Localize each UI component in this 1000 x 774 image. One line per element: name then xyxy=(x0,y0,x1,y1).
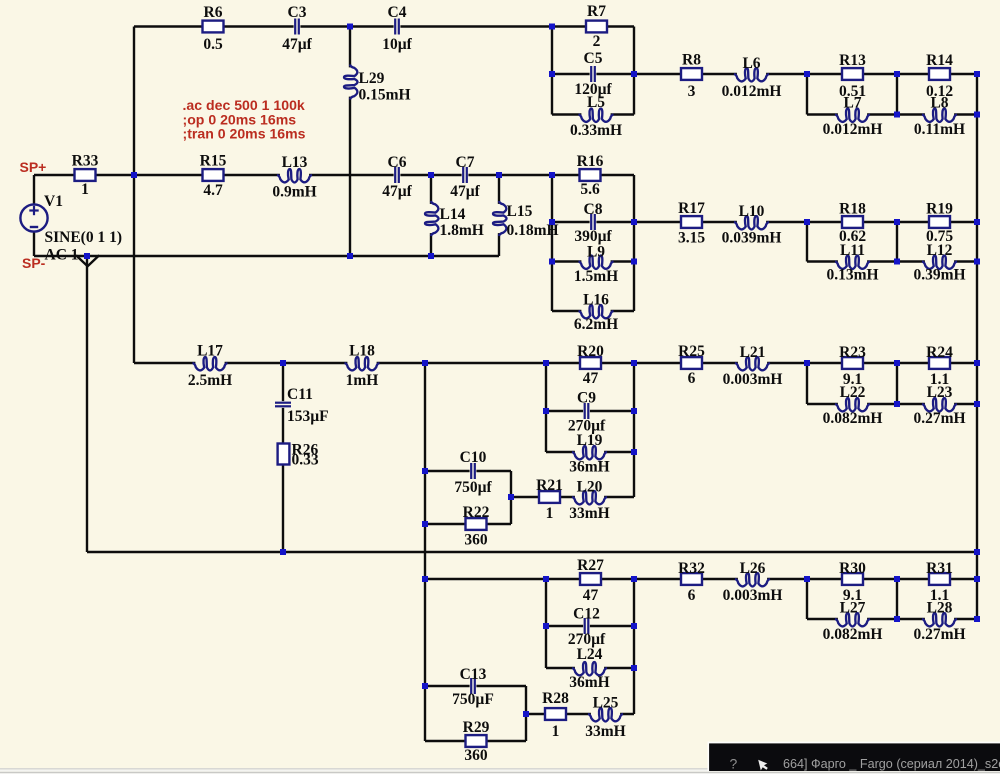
svg-text:AC 1: AC 1 xyxy=(45,247,79,264)
node junction (431,256) xyxy=(428,253,434,259)
wire: R7 block left rail xyxy=(551,27,553,115)
node junction (634,411) xyxy=(631,408,637,414)
wire: zobel3 mid rail xyxy=(896,363,898,404)
inductor L9 (1.5mH) xyxy=(574,244,618,286)
bar cursor icon xyxy=(758,760,768,771)
svg-text:0.33: 0.33 xyxy=(292,452,319,469)
inductor L28 (0.27mH) xyxy=(913,600,965,644)
svg-text:L14: L14 xyxy=(440,206,466,223)
svg-text:1.5mH: 1.5mH xyxy=(574,268,618,285)
svg-text:750µf: 750µf xyxy=(454,479,492,496)
voltage source V1 SINE(0 1 1) AC 1 xyxy=(20,193,122,264)
wire: zobel4 left rail xyxy=(806,579,808,619)
svg-text:2.5mH: 2.5mH xyxy=(188,372,232,389)
inductor L19 (36mH) xyxy=(569,432,609,476)
svg-text:L9: L9 xyxy=(587,244,605,261)
resistor R20 (47) xyxy=(577,343,604,387)
svg-text:360: 360 xyxy=(464,532,488,549)
wire: zobel3 left rail xyxy=(806,363,808,404)
node junction (511,497) xyxy=(508,494,514,500)
node junction (546,363) xyxy=(543,360,549,366)
wire: C5 branch xyxy=(552,73,634,75)
svg-text:0.13mH: 0.13mH xyxy=(826,267,878,284)
svg-text:47: 47 xyxy=(583,370,599,387)
wire: C8 branch xyxy=(552,221,634,223)
svg-text:R13: R13 xyxy=(839,52,866,69)
wire: mid series xyxy=(634,221,807,223)
inductor L18 (1mH) xyxy=(345,343,380,390)
wire: source return xyxy=(34,255,499,257)
node junction (526,714) xyxy=(523,711,529,717)
svg-text:L28: L28 xyxy=(927,600,953,617)
resistor R26 (0.33) vertical xyxy=(278,442,319,469)
svg-text:;tran 0 20ms 16ms: ;tran 0 20ms 16ms xyxy=(183,125,306,141)
node junction (807,74) xyxy=(804,71,810,77)
svg-text:0.39mH: 0.39mH xyxy=(913,267,965,284)
capacitor C10 (750µf) xyxy=(454,449,492,496)
resistor R23 (9.1) xyxy=(839,344,866,388)
resistor R32 (6) xyxy=(678,560,705,604)
node junction (897,363) xyxy=(894,360,900,366)
capacitor C5 (120µf) xyxy=(574,50,612,98)
inductor L10 (0.039mH) xyxy=(722,203,782,247)
inductor L8 (0.11mH) xyxy=(914,95,965,139)
svg-text:R18: R18 xyxy=(839,201,866,218)
svg-text:R19: R19 xyxy=(926,201,953,218)
wire: L24 branch xyxy=(546,667,634,669)
node junction (807,363) xyxy=(804,360,810,366)
wire: low zobel top xyxy=(807,362,977,364)
node junction (552,74) xyxy=(549,71,555,77)
inductor L26 (0.003mH) xyxy=(723,560,783,604)
svg-text:R29: R29 xyxy=(463,719,490,736)
wire: common return rail xyxy=(87,551,977,553)
node junction (552,222) xyxy=(549,219,555,225)
svg-text:3: 3 xyxy=(688,83,696,100)
svg-text:L24: L24 xyxy=(577,646,603,663)
node junction (283,552) xyxy=(280,549,286,555)
node junction (634,261.5) xyxy=(631,259,637,265)
svg-text:L29: L29 xyxy=(359,70,385,87)
svg-text:10µf: 10µf xyxy=(382,36,412,53)
node junction (552,26.5) xyxy=(549,24,555,30)
node junction (634,626) xyxy=(631,623,637,629)
svg-text:R25: R25 xyxy=(678,343,705,360)
svg-text:1mH: 1mH xyxy=(346,372,379,389)
svg-text:R20: R20 xyxy=(577,343,604,360)
resistor R29 (360) xyxy=(463,719,490,764)
resistor R6 (0.5) xyxy=(203,4,224,53)
svg-text:R8: R8 xyxy=(682,52,701,69)
wire: zobel4 mid rail xyxy=(896,579,898,619)
svg-text:664] Фарго _ Fargo (сериал 201: 664] Фарго _ Fargo (сериал 2014)_s2e1 xyxy=(783,757,1000,771)
node junction (552,261.5) xyxy=(549,259,555,265)
svg-text:R21: R21 xyxy=(536,477,563,494)
node junction (425,363) xyxy=(422,360,428,366)
node junction (546,626) xyxy=(543,623,549,629)
node junction (977,579) xyxy=(974,576,980,582)
node junction (634,363) xyxy=(631,360,637,366)
svg-text:SP+: SP+ xyxy=(20,159,47,175)
wire: R20 block left rail xyxy=(545,363,547,452)
svg-text:C9: C9 xyxy=(577,390,596,407)
capacitor C12 (270µf) xyxy=(568,606,606,649)
wire: R16 block right rail xyxy=(633,175,635,311)
wire: L29 shunt xyxy=(349,27,351,257)
svg-text:R23: R23 xyxy=(839,344,866,361)
resistor R30 (9.1) xyxy=(839,560,866,604)
capacitor C3 (47µf) xyxy=(282,4,312,53)
svg-text:L23: L23 xyxy=(927,384,953,401)
wire: C12 branch xyxy=(546,625,634,627)
wire: L15 shunt xyxy=(498,175,500,256)
svg-text:L15: L15 xyxy=(507,203,533,220)
wire: R7 branch xyxy=(552,25,634,27)
node junction (897,114.5) xyxy=(894,112,900,118)
node junction (977,74) xyxy=(974,71,980,77)
svg-text:L6: L6 xyxy=(742,55,760,72)
svg-text:R16: R16 xyxy=(577,153,604,170)
node junction (977,261.5) xyxy=(974,259,980,265)
svg-text:SP-: SP- xyxy=(22,255,46,271)
svg-text:C8: C8 xyxy=(584,201,603,218)
capacitor C4 (10µf) xyxy=(382,4,412,53)
node junction (552,175) xyxy=(549,172,555,178)
svg-text:0.012mH: 0.012mH xyxy=(823,121,883,138)
wire: zobel2 left rail xyxy=(806,222,808,262)
wire: mid band rail xyxy=(34,174,552,176)
wire: C11-R26 shunt xyxy=(282,363,284,552)
svg-text:0.9mH: 0.9mH xyxy=(272,184,316,201)
node junction (546,411) xyxy=(543,408,549,414)
wire: L5 branch xyxy=(552,113,634,115)
wire: C13/R29 right rail xyxy=(525,686,527,741)
node junction (634,668) xyxy=(631,665,637,671)
node junction (425,579) xyxy=(422,576,428,582)
node junction (977,404) xyxy=(974,401,980,407)
svg-text:R24: R24 xyxy=(926,344,953,361)
wire: SP- return drop xyxy=(86,256,88,552)
svg-text:0.33mH: 0.33mH xyxy=(570,122,622,139)
node junction (350,26.5) xyxy=(347,24,353,30)
svg-text:L27: L27 xyxy=(840,600,866,617)
wire: low band rail xyxy=(134,362,807,364)
svg-text:C5: C5 xyxy=(584,50,603,67)
svg-text:L10: L10 xyxy=(739,203,765,220)
svg-text:47µf: 47µf xyxy=(282,36,312,53)
resistor R27 (47) xyxy=(577,557,604,604)
svg-text:390µf: 390µf xyxy=(574,228,612,245)
wire: zobel1 mid rail xyxy=(896,74,898,115)
resistor R13 (0.51) xyxy=(839,52,866,100)
svg-text:2: 2 xyxy=(593,33,601,50)
capacitor C7 (47µf) xyxy=(450,154,480,200)
capacitor C8 (390µf) xyxy=(574,201,612,245)
resistor R8 (3) xyxy=(681,52,702,101)
svg-text:360: 360 xyxy=(464,747,488,764)
svg-text:L7: L7 xyxy=(843,95,861,112)
svg-text:L25: L25 xyxy=(593,695,619,712)
wire: R16 branch xyxy=(552,174,634,176)
inductor L17 (2.5mH) xyxy=(188,343,232,390)
node junction (897,222) xyxy=(894,219,900,225)
resistor R31 (1.1) xyxy=(926,560,953,604)
wire: low zobel bottom xyxy=(807,403,977,405)
svg-text:L18: L18 xyxy=(349,343,375,360)
svg-text:0.5: 0.5 xyxy=(203,36,223,53)
wire: mid zobel bottom xyxy=(807,260,977,262)
svg-text:47: 47 xyxy=(583,587,599,604)
wire: zobel2 mid rail xyxy=(896,222,898,262)
inductor L29 (0.15mH) vertical xyxy=(344,65,411,104)
svg-text:6: 6 xyxy=(688,370,696,387)
inductor L13 (0.9mH) xyxy=(272,154,316,201)
resistor R24 (1.1) xyxy=(926,344,953,388)
svg-text:33mH: 33mH xyxy=(585,723,625,740)
node junction (634,222) xyxy=(631,219,637,225)
wire: L9 branch xyxy=(552,260,634,262)
inductor L16 (6.2mH) xyxy=(574,292,618,334)
capacitor C13 (750µF) xyxy=(452,666,494,708)
wire: R28-L25 branch xyxy=(526,713,634,715)
node junction (87,256) xyxy=(84,253,90,259)
svg-text:L17: L17 xyxy=(197,343,223,360)
wire: right common rail xyxy=(976,74,978,619)
svg-text:6: 6 xyxy=(688,587,696,604)
svg-text:C12: C12 xyxy=(573,606,600,623)
svg-text:L19: L19 xyxy=(577,432,603,449)
wire: R29 branch xyxy=(425,740,526,742)
wire: zobel1 left rail xyxy=(806,74,808,115)
svg-text:L21: L21 xyxy=(740,344,766,361)
node junction (977,552) xyxy=(974,549,980,555)
inductor L23 (0.27mH) xyxy=(913,384,965,427)
node junction (134,175) xyxy=(131,172,137,178)
svg-text:R30: R30 xyxy=(839,560,866,577)
window bottom edge strips xyxy=(0,768,1000,774)
node junction (897,261.5) xyxy=(894,259,900,265)
svg-text:6.2mH: 6.2mH xyxy=(574,316,618,333)
resistor R28 (1) xyxy=(542,690,569,740)
wire: R22 branch xyxy=(425,523,511,525)
svg-text:0.11mH: 0.11mH xyxy=(914,121,965,138)
wire: sub zobel bottom xyxy=(807,618,977,620)
inductor L14 (1.8mH) vertical xyxy=(425,201,484,239)
svg-text:L11: L11 xyxy=(840,242,865,259)
inductor L21 (0.003mH) xyxy=(723,344,783,388)
node junction (897,404) xyxy=(894,401,900,407)
svg-text:1: 1 xyxy=(552,723,560,740)
svg-text:47µf: 47µf xyxy=(382,183,412,200)
svg-text:0.039mH: 0.039mH xyxy=(722,230,782,247)
svg-text:R7: R7 xyxy=(587,3,606,20)
svg-text:L5: L5 xyxy=(587,94,605,111)
media player overlay bar xyxy=(708,742,1000,771)
capacitor C11 (153µF) vertical xyxy=(275,386,329,425)
resistor R25 (6) xyxy=(678,343,705,387)
inductor L22 (0.082mH) xyxy=(823,384,883,427)
wire: C9 branch xyxy=(546,410,634,412)
wire: R20 block right rail xyxy=(633,363,635,497)
svg-text:L20: L20 xyxy=(577,479,603,496)
capacitor C6 (47µf) xyxy=(382,154,412,200)
svg-text:L22: L22 xyxy=(840,384,866,401)
inductor L12 (0.39mH) xyxy=(913,242,965,284)
wire: tweeter zobel bottom xyxy=(807,113,977,115)
svg-text:0.082mH: 0.082mH xyxy=(823,410,883,427)
inductor L11 (0.13mH) xyxy=(826,242,878,284)
node junction (807,222) xyxy=(804,219,810,225)
resistor R18 (0.62) xyxy=(839,201,866,246)
wire: tweeter zobel top xyxy=(807,73,977,75)
svg-text:0.003mH: 0.003mH xyxy=(723,371,783,388)
node junction (350,256) xyxy=(347,253,353,259)
svg-text:3.15: 3.15 xyxy=(678,230,705,247)
svg-text:L13: L13 xyxy=(282,154,308,171)
svg-text:36mH: 36mH xyxy=(569,459,609,476)
node junction (425,686) xyxy=(422,683,428,689)
svg-text:V1: V1 xyxy=(44,193,63,210)
svg-text:L12: L12 xyxy=(927,242,953,259)
node junction (634,579) xyxy=(631,576,637,582)
svg-text:R17: R17 xyxy=(678,200,705,217)
capacitor C9 (270µf) xyxy=(568,390,606,435)
svg-text:1.8mH: 1.8mH xyxy=(440,222,484,239)
wire: L14 shunt xyxy=(430,175,432,256)
svg-text:R32: R32 xyxy=(678,560,705,577)
resistor R22 (360) xyxy=(463,504,490,549)
node junction (807,579) xyxy=(804,576,810,582)
node junction (977,619) xyxy=(974,616,980,622)
svg-text:47µf: 47µf xyxy=(450,183,480,200)
svg-text:SINE(0 1 1): SINE(0 1 1) xyxy=(45,229,123,246)
node junction (431,175) xyxy=(428,172,434,178)
svg-text:5.6: 5.6 xyxy=(580,181,600,198)
wire: tweeter series xyxy=(634,73,807,75)
svg-text:0.082mH: 0.082mH xyxy=(823,626,883,643)
svg-text:153µF: 153µF xyxy=(287,408,329,425)
svg-text:0.003mH: 0.003mH xyxy=(723,587,783,604)
node junction (546,579) xyxy=(543,576,549,582)
svg-text:0.27mH: 0.27mH xyxy=(913,626,965,643)
resistor R16 (5.6) xyxy=(577,153,604,198)
node junction (897,619) xyxy=(894,616,900,622)
inductor L5 (0.33mH) xyxy=(570,94,622,139)
svg-text:R33: R33 xyxy=(72,153,99,170)
wire: C10 branch xyxy=(425,470,511,472)
svg-text:36mH: 36mH xyxy=(569,674,609,691)
svg-text:0.15mH: 0.15mH xyxy=(359,87,411,104)
svg-text:R15: R15 xyxy=(200,153,227,170)
node junction (977,222) xyxy=(974,219,980,225)
wire: R7 block right rail xyxy=(633,27,635,115)
net flag SP- (port, V down) xyxy=(76,255,99,266)
svg-text:C7: C7 xyxy=(456,154,475,171)
svg-text:1: 1 xyxy=(81,181,89,198)
svg-text:R22: R22 xyxy=(463,504,490,521)
node junction (499,175) xyxy=(496,172,502,178)
wire: R21-L20 branch xyxy=(511,496,634,498)
resistor R14 (0.12) xyxy=(926,52,953,100)
resistor R19 (0.75) xyxy=(926,201,953,246)
svg-text:C4: C4 xyxy=(388,4,407,21)
inductor L20 (33mH) xyxy=(569,479,609,523)
wire: R27 block right rail xyxy=(633,579,635,714)
svg-text:0.27mH: 0.27mH xyxy=(913,410,965,427)
wire: sub band rail xyxy=(425,578,977,580)
resistor R17 (3.15) xyxy=(678,200,705,247)
svg-text:4.7: 4.7 xyxy=(203,182,223,199)
wire: R27 block left rail xyxy=(545,579,547,668)
svg-text:C3: C3 xyxy=(288,4,307,21)
node junction (897,579) xyxy=(894,576,900,582)
node junction (634,74) xyxy=(631,71,637,77)
svg-text:R31: R31 xyxy=(926,560,953,577)
svg-text:C10: C10 xyxy=(460,449,487,466)
wire: mid zobel top xyxy=(807,221,977,223)
inductor L6 (0.012mH) xyxy=(722,55,782,100)
node junction (634,452) xyxy=(631,449,637,455)
svg-text:R27: R27 xyxy=(577,557,604,574)
svg-text:C11: C11 xyxy=(287,386,313,403)
wire: C10/R22 right rail xyxy=(510,471,512,524)
svg-text:L8: L8 xyxy=(930,95,948,112)
node junction (283,363) xyxy=(280,360,286,366)
wire: L16 branch xyxy=(552,310,634,312)
node junction (425,471) xyxy=(422,468,428,474)
svg-text:1: 1 xyxy=(546,505,554,522)
inductor L7 (0.012mH) xyxy=(823,95,883,139)
svg-text:?: ? xyxy=(730,756,738,772)
wire: top band rail xyxy=(134,25,552,27)
inductor L27 (0.082mH) xyxy=(823,600,883,644)
node junction (897,74) xyxy=(894,71,900,77)
wire: low-pass left rail xyxy=(424,363,426,741)
wire: input split rail xyxy=(133,27,135,364)
wire: L19 branch xyxy=(546,451,634,453)
svg-text:0.012mH: 0.012mH xyxy=(722,83,782,100)
node junction (425,524) xyxy=(422,521,428,527)
resistor R21 (1) xyxy=(536,477,563,522)
svg-text:C13: C13 xyxy=(460,666,487,683)
wire: R16 block left rail xyxy=(551,175,553,311)
svg-text:33mH: 33mH xyxy=(569,505,609,522)
resistor R33 (1) xyxy=(72,153,99,199)
wire: V1 branch xyxy=(33,175,35,256)
svg-text:L16: L16 xyxy=(583,292,609,309)
node junction (977,363) xyxy=(974,360,980,366)
svg-text:R6: R6 xyxy=(204,4,223,21)
svg-text:R14: R14 xyxy=(926,52,953,69)
resistor R15 (4.7) xyxy=(200,153,227,200)
svg-text:R28: R28 xyxy=(542,690,569,707)
node junction (977,114.5) xyxy=(974,112,980,118)
inductor L24 (36mH) xyxy=(569,646,609,691)
resistor R7 (2) xyxy=(586,3,607,50)
svg-text:L26: L26 xyxy=(740,560,766,577)
svg-text:750µF: 750µF xyxy=(452,691,494,708)
svg-text:C6: C6 xyxy=(388,154,407,171)
inductor L25 (33mH) xyxy=(585,695,625,741)
inductor L15 (0.18mH) vertical xyxy=(493,201,559,239)
wire: C13 branch xyxy=(425,685,526,687)
